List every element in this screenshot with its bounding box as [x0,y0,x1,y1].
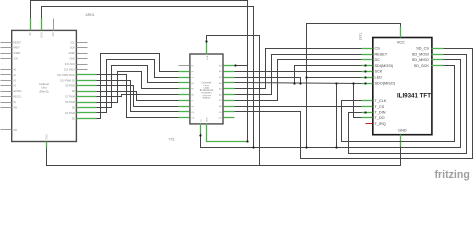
svg-text:AREF: AREF [13,47,20,50]
junction dot [205,40,207,42]
wire arduino to shifter channel 8 [97,86,179,107]
svg-text:GND: GND [398,129,407,133]
arduino left pin 11 [1,102,12,104]
junction dot [305,76,307,78]
svg-text:T_IRQ: T_IRQ [375,122,386,126]
wire arduino to shifter channel 2 [97,54,179,119]
svg-text:SCL: SCL [70,41,75,44]
svg-text:T_CS: T_CS [375,105,385,109]
wire arduino D11 lead [88,85,97,87]
tft pin T_CLK [362,100,373,102]
tft pin T_DO [362,117,373,119]
svg-text:D10 PWM SS: D10 PWM SS [60,79,75,82]
svg-text:DC: DC [375,58,381,62]
svg-text:GND: GND [46,134,49,140]
wire TFT VCC to 3V3 rail [307,24,401,148]
svg-text:A5/SCL: A5/SCL [13,96,22,99]
wire arduino D9 lead [88,96,97,98]
arduino right pin 8 [77,80,88,82]
svg-text:RESET: RESET [375,52,388,56]
wire MOSI branch to TFT SDI [295,66,362,84]
shifter right pin A10 [224,117,235,119]
wire CS net shifter A5 to TFT CS [235,49,362,89]
svg-text:VCA: VCA [206,55,209,60]
junction dot [293,82,295,84]
arduino top pin 3 (VIN) [53,19,55,31]
arduino left pin 1 [1,42,12,44]
arduino right pin 7 [77,74,88,76]
svg-text:LED: LED [375,76,383,80]
svg-text:SD_MOSI: SD_MOSI [412,52,429,56]
wire arduino to shifter channel 4 [97,66,179,108]
arduino top pin 1 (5V) [30,19,32,31]
wire arduino D8 lead [88,102,97,104]
arduino left pin 2 [1,47,12,49]
shifter left pin B1 [179,65,190,67]
shifter left pin B10 [179,117,190,119]
tft pin T_CS [362,106,373,108]
arduino right pin 1 [77,42,88,44]
tft pin SDO(MISO) [362,83,373,85]
wire 3V3 rail shifter OE to TFT SD_MISO [201,60,461,148]
wire MOSI loop TFT SD_MOSI to T_DIN [349,55,467,154]
wire RESET net shifter A6 to TFT RESET [235,55,362,95]
svg-text:T_CLK: T_CLK [375,99,387,103]
wire arduino to shifter channel 5 [97,72,179,103]
svg-text:(Rev3): (Rev3) [39,89,48,93]
wire GND trunk arduino to TFT [47,147,401,166]
wire arduino D6 lead [88,112,97,114]
shifter right pin A7 [224,100,235,102]
arduino right pin 15 [77,118,88,120]
svg-text:D12 MISO: D12 MISO [64,68,75,71]
wire SCK net shifter A2 to TFT SCK [235,71,362,73]
svg-text:D9 PWM: D9 PWM [65,85,75,88]
junction dot [246,140,248,142]
svg-text:GND: GND [40,32,43,38]
tft pin VCC [400,27,402,38]
arduino right pin 14 [77,112,88,114]
wire arduino to shifter channel 7 [97,92,179,101]
svg-text:D7 PWM: D7 PWM [65,96,75,99]
wire shifter A3 jog to SDO row [235,78,301,84]
svg-text:OE: OE [219,112,223,114]
arduino left pin 9 [1,91,12,93]
arduino ARD1 body [12,30,77,141]
svg-text:TFT1: TFT1 [359,32,363,40]
junction dot [199,134,201,136]
junction dot [252,146,254,148]
level shifter TX1 body [190,54,223,124]
arduino left pin 5 [1,69,12,71]
wire arduino D5 lead [88,118,97,120]
arduino left pin 7 [1,80,12,82]
svg-text:SD_CS: SD_CS [416,47,429,51]
tft pin DC [362,59,373,61]
svg-text:D13 SCK: D13 SCK [65,63,75,66]
tft pin SD_MOSI [432,54,444,56]
wire SD_CS net shifter A9 loop to TFT SD_CS [235,49,473,159]
wire MISO net shifter A4 to TFT SDO [235,83,362,84]
svg-text:SD_SCK: SD_SCK [414,64,430,68]
wire 5V net from arduino top pin 1 [31,1,248,142]
shifter left pin B6 [179,94,190,96]
arduino right pin 4 [77,58,88,60]
svg-text:ARD1: ARD1 [86,13,95,17]
svg-text:SDO(MISO): SDO(MISO) [375,81,396,85]
wire arduino to shifter channel 10 [97,75,179,118]
svg-text:CS: CS [375,47,381,51]
arduino left pin 13 [1,129,12,131]
shifter right pin A1 [224,65,235,67]
tft pin SD_SCK [432,65,444,67]
tft pin GND [400,135,402,147]
shifter bottom pin 2 (GND) [206,124,208,135]
tft pin SDI(MOSI) [362,65,373,67]
svg-text:VIN: VIN [13,107,17,110]
shifter right pin A9 [224,111,235,113]
wire arduino to shifter channel 3 [97,60,179,113]
arduino left pin 3 [1,53,12,55]
junction dot [364,76,366,78]
svg-text:SDI(MOSI): SDI(MOSI) [375,64,394,68]
shifter right pin A8 [224,106,235,108]
tft pin SD_MISO [432,59,444,61]
shifter left pin B4 [179,82,190,84]
shifter right pin A4 [224,82,235,84]
shifter right pin A2 [224,71,235,73]
svg-text:ILI9341 TFT: ILI9341 TFT [397,92,431,99]
wire arduino to shifter channel 6 [97,95,179,97]
svg-text:OE: OE [201,118,203,122]
svg-text:IOREF: IOREF [13,52,21,55]
wire 5V tap to shifter A1 [236,65,248,67]
wire DC net shifter A7 to TFT DC [235,60,362,101]
arduino left pin 12 [1,107,12,109]
svg-text:VIN: VIN [52,32,55,36]
arduino right pin 6 [77,69,88,71]
wire shifter GND green to 5V junction [207,135,248,142]
junction dot [364,111,366,113]
svg-text:D6 PWM: D6 PWM [65,101,75,104]
wire arduino D7 lead [88,107,97,109]
svg-text:SCK: SCK [375,70,383,74]
shifter left pin B8 [179,106,190,108]
svg-text:OE: OE [191,112,195,114]
wire riser SDO row to rail [336,84,338,148]
wire T_CS net shifter A8 to TFT T_CS [235,106,362,108]
wire shifter top pin to ground trunk [207,36,260,166]
junction dot [364,82,366,84]
junction dot [234,64,236,66]
wire arduino D12 lead [88,80,97,82]
wire SCK loop TFT SD_SCK to T_CLK [342,66,455,142]
shifter left pin B3 [179,77,190,79]
svg-text:Adafruit: Adafruit [202,97,210,100]
junction dot [305,146,307,148]
svg-text:RESET: RESET [13,41,22,44]
svg-text:T_DIN: T_DIN [375,111,386,115]
svg-text:VIN: VIN [13,129,17,132]
svg-text:VCC: VCC [397,40,405,44]
junction dot [352,82,354,84]
arduino right pin 3 [77,53,88,55]
shifter left pin B5 [179,88,190,90]
arduino left pin 8 [1,85,12,87]
TFT display body [373,38,432,135]
arduino left pin 4 [1,58,12,60]
svg-text:3.3V: 3.3V [13,58,18,61]
svg-text:GD: GD [218,118,222,120]
wire 3V3 net from arduino top pin 2 [42,7,254,148]
svg-text:T_DO: T_DO [375,116,385,120]
wire arduino to shifter channel 9 [97,81,179,112]
wire LED backlight tap [307,77,362,79]
shifter top pin [206,43,208,55]
svg-text:SDA: SDA [70,47,75,50]
arduino bottom pin GND [46,142,48,148]
arduino right pin 11 [77,96,88,98]
arduino right pin 9 [77,85,88,87]
tft pin SCK [362,71,373,73]
wire arduino D10 lead [88,91,97,93]
junction dot [335,82,337,84]
svg-text:TX1: TX1 [169,137,175,141]
arduino left pin 6 [1,74,12,76]
tft pin T_DIN [362,112,373,114]
shifter right pin A5 [224,88,235,90]
tft pin RESET [362,54,373,56]
shifter left pin B7 [179,100,190,102]
arduino right pin 12 [77,102,88,104]
svg-text:fritzing: fritzing [435,169,470,181]
arduino right pin 2 [77,47,88,49]
junction dot [364,70,366,72]
junction dot [364,64,366,66]
shifter bottom pin 1 (OE) [200,124,202,134]
svg-text:D4 PWM: D4 PWM [65,112,75,115]
svg-text:GND: GND [70,58,76,61]
arduino right pin 13 [77,107,88,109]
wire T_IRQ red stub [366,123,373,125]
arduino top pin 2 (3V3) [41,19,43,31]
tft pin CS [362,48,373,50]
shifter left pin B2 [179,71,190,73]
svg-text:GD: GD [191,118,195,120]
shifter right pin A3 [224,77,235,79]
shifter right pin A6 [224,94,235,96]
svg-text:D11 PWM MOSI: D11 PWM MOSI [57,74,75,77]
arduino right pin 10 [77,91,88,93]
arduino left pin 10 [1,96,12,98]
junction dot [335,146,337,148]
tft pin SD_CS [432,48,444,50]
junction dot [299,82,301,84]
shifter left pin B9 [179,111,190,113]
svg-text:5V: 5V [13,101,16,104]
tft pin LED [362,77,373,79]
svg-text:AREF: AREF [69,52,76,55]
svg-text:A4/SDA: A4/SDA [13,90,22,93]
wire arduino D13 lead [88,74,97,76]
svg-text:GND: GND [206,117,208,122]
wire T_DO branch from SDO row [354,84,362,118]
svg-text:5V: 5V [29,32,32,35]
arduino right pin 5 [77,64,88,66]
svg-text:SD_MISO: SD_MISO [412,58,429,62]
